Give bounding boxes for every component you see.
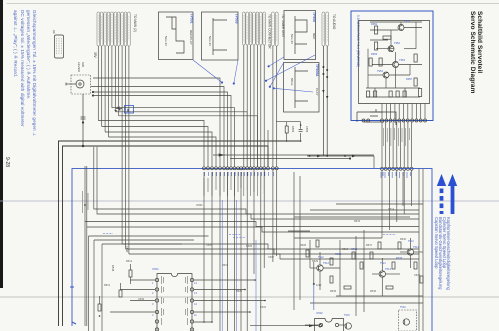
svg-text:R533: R533: [354, 220, 361, 223]
svg-text:R535: R535: [396, 256, 403, 260]
svg-text:R537: R537: [366, 244, 373, 247]
bundle from servo pack down to lower section: [382, 122, 412, 167]
resistors inside: [367, 26, 422, 97]
svg-text:5ms 2V: 5ms 2V: [164, 36, 168, 46]
waveform box TP501: [159, 12, 194, 60]
wires entering IC501 left: [110, 280, 155, 312]
blue border tick marks: [70, 287, 76, 324]
transistor T951: [398, 25, 404, 31]
arrow wire into IC502: [250, 324, 321, 327]
svg-text:R953: R953: [371, 52, 378, 56]
junction node at 313.8,284: [313, 262, 322, 310]
horizontals above circle row: [213, 154, 374, 160]
cell text smears: [98, 14, 129, 43]
title (rotated, right edge): [457, 11, 483, 131]
long drops from centre circles into lower section: [204, 172, 261, 331]
svg-text:R514: R514: [126, 260, 133, 263]
blue signal wires in bundle: [103, 200, 396, 331]
IC502 block (bottom center): [305, 319, 345, 331]
svg-text:C519: C519: [414, 274, 421, 277]
svg-text:T514: T514: [408, 240, 414, 243]
component above (plug symbol): [52, 30, 64, 58]
svg-text:IC501: IC501: [196, 204, 203, 207]
LEVER SW component (dashed box, top-left area): [66, 62, 91, 94]
transistor T953: [393, 62, 399, 68]
svg-text:C513: C513: [342, 248, 349, 251]
connector block CN501 (top-left, 10 cells): [97, 12, 130, 46]
bottom-left corner bus turning right with staircase: [85, 147, 419, 259]
svg-text:5-8 SERVO PACK 7.8.4 (REVERSE): 5-8 SERVO PACK 7.8.4 (REVERSE): [356, 15, 360, 67]
arrowed wire below box4: [307, 155, 374, 168]
main frame rect A: [59, 141, 301, 326]
left mid horizontal bus group 2: [98, 121, 216, 168]
left long verticals in lower section: [85, 166, 209, 331]
blue section border: [72, 169, 432, 331]
center vertical bundle to circle row: [244, 45, 277, 167]
lower-right wires and resistors: [310, 230, 423, 316]
svg-text:T953: T953: [399, 58, 405, 62]
svg-text:C507: C507: [268, 256, 275, 259]
blue labels inside: [371, 19, 413, 81]
inner circuit frame: [359, 21, 430, 104]
svg-text:AC: AC: [52, 30, 56, 34]
svg-text:T515: T515: [344, 314, 350, 317]
svg-text:PLAY: PLAY: [315, 88, 319, 95]
svg-text:R504: R504: [291, 126, 295, 133]
junction dots where IC pin wires meet bundle: [203, 279, 266, 323]
svg-text:R528: R528: [300, 244, 307, 247]
wires inside box: [366, 22, 422, 97]
fold line middle: [0, 200, 499, 202]
T513: [379, 271, 385, 277]
page number 9-28 rotated: [4, 157, 10, 179]
main frame rect B: [63, 146, 269, 326]
waveform box TP506A PLAY: [284, 63, 320, 113]
svg-text:TP503: TP503: [235, 14, 239, 24]
blue diagonal callout lines with dots: [193, 55, 315, 92]
transistor T952: [388, 46, 394, 52]
svg-text:R509: R509: [246, 245, 253, 248]
svg-text:R531: R531: [335, 252, 342, 256]
svg-text:T516: T516: [400, 306, 406, 309]
lower-right vertical drops from circle rows: [254, 170, 412, 310]
sprinkled tiny reference labels: [104, 204, 421, 309]
connector mid wires turning right: [112, 108, 258, 167]
svg-text:T512: T512: [318, 256, 324, 259]
svg-text:R545: R545: [330, 290, 337, 293]
circles row under servo pack: [381, 119, 427, 122]
waveform box TP503: [202, 12, 239, 60]
svg-text:R515: R515: [111, 265, 115, 272]
svg-text:35V: 35V: [93, 52, 97, 59]
connector strip 3 (2 cells): [272, 12, 286, 46]
svg-text:R520: R520: [236, 290, 243, 293]
wires from servo pack into box bottom: [382, 104, 425, 120]
blue labels lower right: [323, 245, 419, 271]
svg-text:R518: R518: [222, 264, 229, 267]
small blue component mid-left: [115, 106, 134, 114]
svg-text:T951: T951: [404, 19, 410, 23]
T514: [407, 249, 413, 255]
blue note paragraph (rotated): [11, 10, 37, 138]
svg-text:R512: R512: [104, 284, 111, 287]
T512: [317, 265, 323, 271]
blue pin labels below right circle row: [381, 172, 411, 178]
svg-text:C510: C510: [125, 246, 129, 253]
wire from lever sw down with cap: [81, 94, 86, 147]
svg-text:C505: C505: [206, 244, 213, 247]
T516 in dashed box: [399, 310, 417, 331]
blue arrows (capstan dashed / cylinder solid): [437, 174, 457, 214]
blue pin numbers: [152, 281, 197, 317]
wires from connector1 down: [98, 46, 129, 254]
servo pack blue box: [351, 11, 433, 121]
connector strip 2 (7 cells): [243, 12, 272, 49]
svg-text:T513: T513: [385, 267, 391, 271]
svg-text:R529: R529: [312, 260, 319, 263]
svg-text:T512: T512: [323, 261, 329, 265]
svg-text:R957: R957: [406, 77, 413, 81]
svg-text:R546: R546: [370, 290, 377, 293]
svg-text:C514: C514: [388, 208, 395, 211]
tiny pin labels: [162, 276, 188, 325]
label smears beside right bundle: [384, 128, 410, 146]
labels under center circles (rotated smears): [204, 172, 264, 196]
svg-text:C509: C509: [138, 298, 145, 301]
svg-text:5ms 2V: 5ms 2V: [290, 34, 294, 44]
left mid horizontal bus group 1: [91, 78, 231, 167]
svg-text:R951: R951: [371, 22, 378, 26]
fold line lower: [0, 296, 499, 298]
svg-text:IC502: IC502: [316, 312, 323, 315]
svg-text:C512: C512: [351, 247, 358, 251]
svg-text:T954: T954: [377, 69, 383, 73]
sub box below servo pack: [357, 109, 396, 125]
svg-text:4.4V: 4.4V: [316, 283, 322, 287]
svg-text:IC501: IC501: [152, 268, 159, 271]
svg-text:LEVER: LEVER: [77, 62, 81, 73]
svg-text:T514: T514: [413, 245, 419, 249]
svg-text:C516: C516: [260, 306, 267, 309]
svg-text:TP506: TP506: [312, 12, 316, 22]
svg-text:SW: SW: [81, 62, 85, 67]
svg-text:T952: T952: [394, 41, 400, 45]
blue pin numbers under center circles: [205, 172, 274, 176]
top page hairline: [7, 3, 499, 5]
RC network right of strips (x276-306, y121-142): [276, 122, 309, 142]
svg-text:TP506A: TP506A: [315, 64, 319, 77]
IC501 block (bottom left-center): [152, 274, 197, 331]
small components bottom-left: [98, 246, 132, 317]
diode chain below strip4: [322, 46, 328, 156]
svg-text:TO MAIN (2): TO MAIN (2): [133, 14, 137, 32]
T515: [345, 323, 351, 329]
svg-text:▮: ▮: [127, 108, 129, 112]
svg-text:T513: T513: [380, 262, 386, 265]
connector strip 4 (2 cells): [322, 12, 336, 46]
sw label column near x84: [83, 191, 89, 213]
svg-text:TO TIMER UNIT: TO TIMER UNIT: [281, 14, 285, 37]
wires leaving IC501 right: [194, 280, 265, 312]
center circles row: [203, 167, 279, 170]
lower-right circuit: transistors: [317, 249, 417, 331]
svg-text:REC: REC: [312, 33, 316, 40]
svg-text:R540: R540: [400, 238, 407, 241]
svg-text:TO MAIN CONNECTOR: TO MAIN CONNECTOR: [268, 14, 272, 49]
transistor T954: [383, 72, 389, 78]
svg-text:TP501: TP501: [190, 14, 194, 24]
waveform box TP506 REC: [284, 11, 316, 60]
svg-text:5ms 2V: 5ms 2V: [208, 36, 212, 46]
rotated blue loop captions (right, under arrows): [433, 217, 450, 298]
svg-text:TO AUDIO: TO AUDIO: [332, 14, 336, 30]
svg-text:C504: C504: [305, 126, 309, 133]
circles row on lower blue border (right group): [381, 167, 414, 170]
svg-text:REC/PLAY: REC/PLAY: [189, 30, 193, 45]
svg-text:50ms: 50ms: [290, 78, 294, 86]
wires along right side of lower section: [288, 169, 423, 331]
page edge black bar: [0, 0, 3, 288]
